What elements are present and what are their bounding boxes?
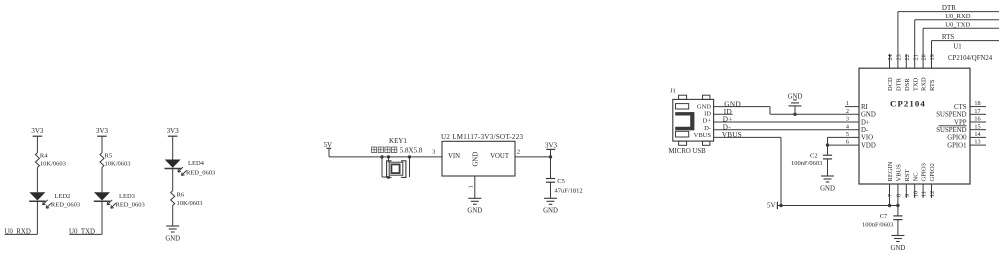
svg-text:D+: D+ bbox=[861, 119, 870, 126]
svg-text:U0_RXD: U0_RXD bbox=[4, 229, 30, 236]
svg-text:U1: U1 bbox=[953, 44, 961, 51]
svg-text:MICRO USB: MICRO USB bbox=[669, 148, 707, 155]
svg-text:GND: GND bbox=[543, 208, 558, 215]
svg-text:GND: GND bbox=[891, 245, 906, 252]
svg-text:ID: ID bbox=[704, 111, 711, 118]
svg-text:100nF/0603: 100nF/0603 bbox=[862, 222, 893, 229]
svg-text:1: 1 bbox=[468, 185, 475, 188]
svg-text:5V: 5V bbox=[767, 202, 776, 210]
svg-text:D-: D- bbox=[861, 127, 869, 134]
svg-text:GND: GND bbox=[467, 208, 482, 215]
svg-text:C2: C2 bbox=[810, 153, 818, 160]
svg-text:DSR: DSR bbox=[904, 78, 911, 91]
svg-text:VPP: VPP bbox=[954, 119, 967, 126]
svg-text:R6: R6 bbox=[177, 192, 185, 199]
svg-text:9: 9 bbox=[904, 194, 911, 197]
svg-text:LED4: LED4 bbox=[188, 160, 205, 167]
svg-text:U0_TXD: U0_TXD bbox=[945, 22, 970, 29]
svg-text:10K/0603: 10K/0603 bbox=[105, 160, 131, 167]
svg-text:DTR: DTR bbox=[942, 4, 956, 12]
svg-text:VBUS: VBUS bbox=[694, 132, 712, 139]
svg-text:24: 24 bbox=[887, 54, 894, 60]
svg-text:CP2104/QFN24: CP2104/QFN24 bbox=[948, 55, 993, 62]
svg-text:DTR: DTR bbox=[896, 77, 903, 91]
svg-text:GND: GND bbox=[820, 185, 835, 192]
svg-text:REGIN: REGIN bbox=[887, 161, 894, 181]
svg-text:2: 2 bbox=[517, 148, 520, 155]
svg-text:1: 1 bbox=[846, 100, 849, 107]
svg-text:RTS: RTS bbox=[929, 79, 936, 91]
svg-text:U0_RXD: U0_RXD bbox=[945, 13, 971, 20]
svg-text:4: 4 bbox=[846, 123, 849, 130]
svg-text:GPIO0: GPIO0 bbox=[947, 135, 967, 142]
svg-text:RST: RST bbox=[904, 170, 911, 182]
svg-text:GND: GND bbox=[165, 235, 180, 242]
svg-text:GND: GND bbox=[472, 152, 479, 167]
svg-text:17: 17 bbox=[974, 108, 980, 115]
svg-text:19: 19 bbox=[929, 54, 936, 60]
svg-text:CP2104: CP2104 bbox=[890, 99, 926, 109]
svg-text:8: 8 bbox=[896, 194, 903, 197]
svg-text:GND: GND bbox=[788, 93, 803, 100]
svg-text:GND: GND bbox=[697, 104, 711, 111]
svg-text:12: 12 bbox=[929, 191, 936, 197]
svg-text:20: 20 bbox=[921, 54, 928, 60]
svg-text:C7: C7 bbox=[880, 213, 888, 220]
svg-text:21: 21 bbox=[912, 54, 919, 60]
svg-text:VDD: VDD bbox=[861, 142, 876, 149]
svg-text:14: 14 bbox=[974, 131, 980, 138]
svg-text:LED3: LED3 bbox=[119, 193, 135, 200]
svg-text:C5: C5 bbox=[557, 178, 565, 185]
svg-text:RED_0603: RED_0603 bbox=[51, 202, 80, 209]
svg-text:2: 2 bbox=[846, 108, 849, 115]
svg-text:TXD: TXD bbox=[912, 77, 919, 91]
svg-text:KEY1: KEY1 bbox=[389, 137, 407, 145]
svg-text:VIN: VIN bbox=[448, 153, 460, 160]
svg-text:SUSPEND: SUSPEND bbox=[936, 127, 966, 134]
svg-text:DCD: DCD bbox=[887, 77, 894, 91]
svg-text:GND: GND bbox=[861, 112, 876, 119]
svg-text:CTS: CTS bbox=[954, 104, 967, 111]
svg-text:VBUS: VBUS bbox=[722, 131, 742, 139]
svg-text:RXD: RXD bbox=[921, 77, 928, 91]
svg-text:SUSPEND: SUSPEND bbox=[936, 112, 966, 119]
svg-text:RTS: RTS bbox=[942, 33, 955, 41]
svg-text:3V3: 3V3 bbox=[31, 127, 44, 135]
svg-text:R5: R5 bbox=[105, 153, 113, 160]
svg-text:LED2: LED2 bbox=[54, 193, 70, 200]
svg-text:GPIO1: GPIO1 bbox=[947, 142, 966, 149]
svg-text:RED_0603: RED_0603 bbox=[186, 170, 215, 177]
svg-text:23: 23 bbox=[896, 54, 903, 60]
svg-text:22: 22 bbox=[904, 54, 911, 60]
svg-text:D+: D+ bbox=[703, 118, 712, 125]
svg-text:RED_0603: RED_0603 bbox=[116, 202, 145, 209]
svg-text:3: 3 bbox=[432, 148, 435, 155]
svg-text:7: 7 bbox=[887, 194, 894, 197]
svg-text:D-: D- bbox=[704, 125, 711, 132]
svg-text:NC: NC bbox=[912, 172, 919, 181]
svg-text:J1: J1 bbox=[670, 88, 676, 95]
svg-text:VOUT: VOUT bbox=[490, 153, 510, 160]
svg-text:15: 15 bbox=[974, 123, 980, 130]
svg-text:10K/0603: 10K/0603 bbox=[40, 160, 66, 167]
svg-text:VBUS: VBUS bbox=[896, 164, 903, 182]
svg-text:10: 10 bbox=[912, 191, 919, 197]
svg-text:U0_TXD: U0_TXD bbox=[69, 229, 95, 236]
svg-text:18: 18 bbox=[974, 100, 980, 107]
svg-text:3: 3 bbox=[846, 116, 849, 123]
svg-text:RI: RI bbox=[861, 104, 869, 111]
svg-text:VIO: VIO bbox=[861, 135, 873, 142]
svg-text:3V3: 3V3 bbox=[545, 142, 558, 150]
svg-text:GPIO2: GPIO2 bbox=[929, 163, 936, 181]
svg-text:R4: R4 bbox=[40, 153, 48, 160]
svg-text:U2 LM1117-3V3/SOT-223: U2 LM1117-3V3/SOT-223 bbox=[441, 133, 524, 141]
svg-text:5.8X5.8: 5.8X5.8 bbox=[400, 146, 423, 154]
svg-text:10K/0603: 10K/0603 bbox=[177, 200, 203, 207]
svg-text:100nF/0603: 100nF/0603 bbox=[791, 160, 822, 167]
svg-text:GPIO3: GPIO3 bbox=[921, 163, 928, 181]
svg-text:11: 11 bbox=[921, 191, 928, 197]
svg-text:3V3: 3V3 bbox=[96, 127, 109, 135]
svg-text:16: 16 bbox=[974, 116, 980, 123]
svg-text:47uF/1812: 47uF/1812 bbox=[555, 188, 583, 195]
svg-text:3V3: 3V3 bbox=[167, 127, 180, 135]
svg-text:13: 13 bbox=[974, 139, 980, 146]
